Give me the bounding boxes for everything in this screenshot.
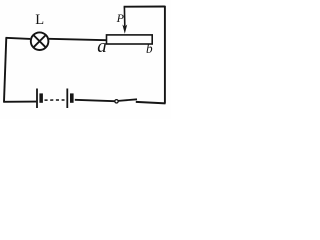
svg-text:b: b bbox=[146, 41, 153, 56]
svg-text:P: P bbox=[116, 11, 125, 25]
svg-text:a: a bbox=[97, 36, 107, 57]
svg-text:L: L bbox=[35, 12, 44, 28]
